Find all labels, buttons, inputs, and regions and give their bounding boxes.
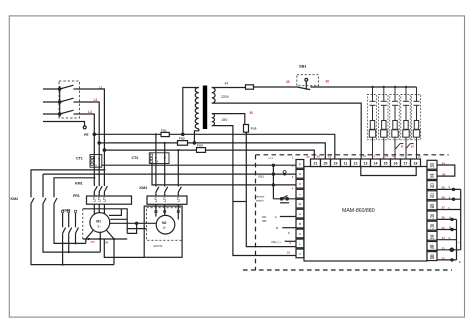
wire RS485 A [280,216,296,218]
red motor terminal labels [91,241,109,245]
sensor GB1 [283,171,286,176]
node QF pole2 [59,101,61,103]
svg-text:35: 35 [286,80,290,84]
svg-text:28: 28 [442,196,446,200]
svg-text:B: B [276,226,278,230]
wire sensor c [437,209,461,211]
svg-text:18: 18 [418,155,422,159]
node supply crossings [155,133,248,166]
svg-text:PE(⏚): PE(⏚) [272,239,281,244]
node output B [451,228,453,230]
node sensor a [452,188,454,190]
svg-text:19: 19 [334,162,338,166]
right strip cell marks [430,163,435,260]
controller top terminal strip [311,159,421,167]
svg-text:KM4: KM4 [140,186,148,190]
motor M1 box bottom edge [83,238,127,240]
red labels above top strip [307,154,422,159]
svg-text:志: 志 [430,233,435,239]
wire N/PE input [43,122,85,126]
svg-text:+: + [299,192,301,196]
node output A [451,218,453,220]
solenoid branch 2 [379,87,388,159]
svg-text:485: 485 [262,219,267,223]
svg-text:24: 24 [442,236,446,240]
motor M2 dashed box [147,208,182,240]
wire PE row [285,240,296,242]
wire M1 box bottom link [104,239,144,258]
svg-text:P: P [299,162,301,166]
transformer T secondary 28V coil [212,114,215,126]
node QF pole1 [59,88,61,90]
breaker QF bus bar [59,86,61,117]
svg-text:A: A [275,215,277,219]
contactor KM2 pole wires [31,170,104,197]
temperature switch contact b [406,144,414,149]
wire output A [437,218,457,220]
motor M2 [156,215,175,234]
top strip cell numbers [314,162,418,166]
svg-text:34: 34 [225,81,229,85]
switch SB1 blade [297,87,310,90]
svg-text:B: B [299,222,301,226]
wire sensor common [460,189,462,249]
black component labels [11,64,308,213]
svg-text:KM1: KM1 [75,182,83,186]
wire SB1 to branches [310,86,416,88]
svg-text:12: 12 [354,162,358,166]
temperature switch contact a [396,144,404,149]
node c1-c4 branch [272,164,274,166]
svg-text:L1: L1 [99,85,103,89]
motor M1 box solid edges [83,209,127,234]
node T primary bottom on bus2 [193,142,195,144]
node L1 to bus3 [103,149,105,151]
jumper loop terminals 1-2 [437,165,455,176]
motor M1 delta wires [86,230,114,264]
wire bus1 [94,134,334,159]
svg-text:19: 19 [328,154,332,158]
switch SB1 stem [305,81,307,89]
svg-text:22: 22 [442,257,446,261]
node T primary top on bus1 [182,133,184,135]
left strip cell marks [298,162,301,256]
svg-text:29: 29 [442,185,446,189]
contactor KM2 blades [31,198,57,204]
svg-text:16: 16 [394,162,398,166]
svg-text:26: 26 [442,216,446,220]
wire KM2 pole3 return [54,204,86,244]
svg-text:地: 地 [430,243,435,249]
transformer T secondary 220V coil [212,88,215,104]
svg-text:15: 15 [385,154,389,158]
transformer T core [203,86,207,130]
wire L2 input [43,101,60,103]
svg-text:FU2: FU2 [179,137,185,141]
solenoid branch 4 [401,87,410,159]
svg-text:S: S [299,232,301,236]
red labels right strip [442,161,446,260]
wire 220V top [212,87,246,89]
node row 23 [450,248,453,251]
svg-text:24: 24 [442,161,446,165]
node L2 to bus2 [98,142,100,144]
wire sensor a [437,188,461,190]
transformer T primary feed top [183,88,199,135]
svg-text:M2: M2 [162,221,167,225]
breaker QF dashed enclosure [59,81,80,118]
svg-text:27: 27 [442,206,446,210]
svg-text:L3: L3 [88,110,92,114]
wire row 23 [437,249,461,251]
controller main box MAM-860/880 [304,167,427,262]
svg-text:KM3: KM3 [63,209,71,213]
wire KM2 pole1 return [31,204,114,265]
wire output C [437,239,457,241]
svg-text:KM2: KM2 [11,197,19,201]
wire bus3 [104,150,314,159]
svg-text:13: 13 [364,162,368,166]
fuse FU2 [178,141,188,146]
svg-text:14: 14 [372,154,376,158]
controller left terminal strip [296,160,304,258]
motor M2 enclosure box [144,206,182,257]
svg-text:MAM-860/880: MAM-860/880 [342,208,375,214]
wire bus2 [99,143,325,159]
motor M1 [90,213,110,233]
svg-text:8: 8 [288,231,290,235]
svg-text:3: 3 [292,175,294,179]
svg-text:21: 21 [307,155,311,159]
M2 terminal ticks [155,210,180,212]
svg-text:B: B [449,226,451,230]
wire L3 input [43,113,60,115]
wire M1 aux step 1 [109,209,121,216]
svg-text:CT1: CT1 [76,157,83,161]
svg-text:F: F [299,182,301,186]
breaker QF blade3 [60,110,74,114]
svg-text:–: – [458,241,460,245]
svg-text:RD-: RD- [262,215,267,219]
KM3 terminal ticks [62,210,77,212]
node KM3 star joints [62,242,77,265]
svg-text:30: 30 [442,173,446,177]
remote switch contact [280,196,289,203]
svg-text:CT2: CT2 [132,156,139,160]
svg-text:FU1: FU1 [161,128,167,132]
solenoid branch 1 [367,87,376,159]
svg-text:实: 实 [430,172,435,179]
svg-text:switch: switch [256,198,264,202]
transformer T primary coil [195,88,199,129]
svg-text:28V: 28V [222,118,229,122]
svg-text:25: 25 [442,226,446,230]
wire L1 output [80,89,105,186]
breaker QF blade2 [60,98,74,102]
svg-text:4: 4 [292,186,294,190]
svg-text:A: A [449,216,451,220]
wire RS485 B [282,227,296,229]
wire link between supply verticals [233,201,246,203]
node QF pole3 [59,113,61,115]
wire 220V bottom return [212,103,361,159]
svg-text:220V: 220V [221,95,230,99]
wire row 22 [437,259,457,261]
wire output common [456,219,458,260]
node KM2 taps [93,169,105,179]
breaker QF blade1 [60,85,74,89]
controller dashed enclosure [243,155,452,270]
svg-text:17: 17 [404,162,408,166]
wire FU5 down to controller [246,132,296,246]
node L3 to bus1 [93,133,95,135]
contactor KM4 blades [156,187,181,196]
svg-text:FU5: FU5 [251,127,257,131]
current transformer CT2 [149,153,169,164]
svg-text:15: 15 [384,162,388,166]
contactor KM3 poles [63,213,79,265]
node M1-M2 wire tap [136,222,138,224]
svg-text:1V1: 1V1 [91,241,96,244]
node row 22 [451,259,453,261]
wire M1 to M2 [109,222,156,224]
wire controller input branch vertical [272,165,274,199]
solenoid branch 5 [411,87,420,159]
wires FR2 to motor M2 [156,204,178,219]
switch SB1 button head [305,78,308,81]
solenoid branch 3 [390,87,399,159]
svg-text:14: 14 [374,162,378,166]
wire sensor b [437,198,461,200]
svg-text:13: 13 [363,154,367,158]
wire row c4 remote switch [273,198,296,200]
transformer T primary bottom wire [194,129,198,143]
svg-text:remote: remote [256,195,265,199]
wire L2 output [80,102,100,186]
svg-text:N: N [299,172,301,176]
red labels left strip [287,155,294,254]
node branch taps [371,86,407,88]
svg-text:38: 38 [401,146,404,149]
wire L1 input [43,88,60,90]
thermal relay FR1 [87,196,132,204]
svg-text:PE: PE [84,133,88,137]
svg-text:GB1: GB1 [258,175,264,179]
wire M1 box to M2 tap [127,223,136,233]
svg-text:A: A [299,212,301,216]
wires FR1 to motor M1 [94,204,104,214]
svg-text:FR1: FR1 [73,194,80,198]
svg-text:30: 30 [250,111,254,115]
current transformer CT1 [90,155,102,168]
svg-text:M1: M1 [96,220,101,224]
svg-text:1W: 1W [105,241,109,244]
wire M1 aux step 2 [110,218,127,220]
svg-text:3~: 3~ [163,226,167,230]
svg-text:11: 11 [344,162,348,166]
wire M2 phase C [177,150,179,186]
wire row c2 [43,173,296,175]
wire KM2 pole2 return [43,204,100,253]
PE terminal circle [83,126,86,129]
svg-text:10: 10 [287,251,291,255]
wire M2 phase B [164,143,166,187]
fuse FU5 [244,125,249,133]
svg-text:16: 16 [392,154,396,158]
svg-text:39: 39 [411,146,414,149]
red wire number labels [88,80,446,261]
fuse FU4 [246,85,254,89]
breaker QF stubs [74,89,80,114]
wire M1 box to M2 box [127,228,146,230]
svg-text:⏚: ⏚ [298,241,301,246]
svg-text:21: 21 [314,162,318,166]
contactor KM1 blades [94,186,107,196]
wire M2 phase A [155,134,157,186]
wire output B [437,229,457,231]
wire 28V bottom down to controller [212,126,296,256]
wire 28V top to FU5 [212,114,245,125]
svg-text:阳: 阳 [430,203,435,210]
wire row c3 from CT2 [152,164,296,185]
svg-text:18: 18 [414,162,418,166]
svg-text:FU3: FU3 [197,143,203,147]
fuse FU1 [161,132,169,136]
svg-text:L2: L2 [94,98,98,102]
motor M1 box dashed edge [82,209,84,239]
wire FU4 to SB1 [254,86,298,88]
controller right terminal strip [427,160,437,260]
node M1 fan joints [88,238,116,240]
node sensor b [452,198,454,200]
svg-text:23: 23 [442,246,446,250]
controller inner top sub-box [361,167,416,176]
fuse FU3 [197,148,206,153]
thermal relay FR2 [147,196,187,204]
svg-text:A: A [157,160,159,163]
svg-text:SB1: SB1 [299,64,308,69]
svg-text:▲: ▲ [459,260,462,264]
switch SB1 dashed box [297,75,319,86]
svg-text:20: 20 [324,162,328,166]
svg-text:1: 1 [292,155,294,159]
svg-text:V: V [299,252,301,256]
wire L3 output [80,114,95,186]
svg-text:C 1: C 1 [269,156,274,160]
svg-text:17: 17 [401,154,405,158]
svg-text:3~: 3~ [97,225,101,229]
wire row c1 from CT1 [102,164,296,166]
svg-text:≤60 W: ≤60 W [154,244,163,248]
svg-text:a: a [449,185,451,189]
svg-text:36: 36 [326,80,330,84]
svg-text:20: 20 [317,154,321,158]
